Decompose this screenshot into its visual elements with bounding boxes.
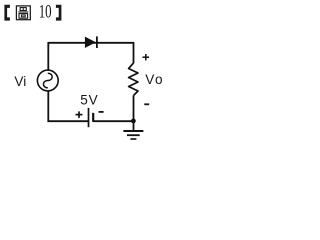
resistor R (load, Vo) xyxy=(129,63,138,96)
AC source Vi (circle with sine curve) xyxy=(37,70,58,91)
ground symbol xyxy=(123,131,143,139)
label plus (Vo polarity) xyxy=(143,54,150,60)
battery minus sign xyxy=(99,111,104,113)
battery plus sign xyxy=(76,111,83,118)
svg-text:10: 10 xyxy=(39,2,52,23)
title right lenticular bracket xyxy=(56,5,62,21)
junction node dot xyxy=(131,119,136,124)
wire top (node between source, diode and resistor) xyxy=(48,42,133,44)
title glyph 圖 xyxy=(16,6,30,20)
diode D (anode left, cathode right) xyxy=(85,36,97,48)
battery plate short (negative) xyxy=(92,113,94,122)
label minus (Vo polarity) xyxy=(144,103,149,105)
wire right lower (resistor to ground) xyxy=(133,96,135,132)
wire right upper (top rail to resistor) xyxy=(133,42,135,63)
wire bottom right (battery to junction) xyxy=(93,120,133,122)
wire left upper (top node to source) xyxy=(47,42,49,70)
title left lenticular bracket xyxy=(4,5,9,21)
wire bottom left (to battery anode) xyxy=(48,120,89,122)
svg-text:5V: 5V xyxy=(80,93,97,108)
wire left lower (source to bottom rail) xyxy=(47,91,49,122)
svg-text:Vi: Vi xyxy=(14,74,26,89)
battery plate long (positive) xyxy=(88,108,90,127)
